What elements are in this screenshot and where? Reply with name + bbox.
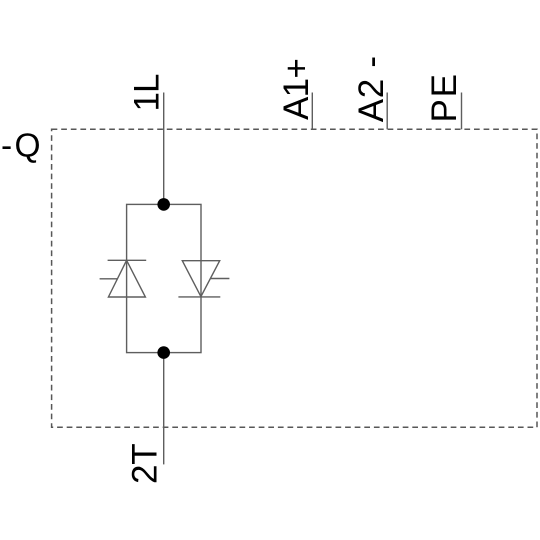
svg-text:A1+: A1+ — [277, 58, 316, 120]
svg-text:-Q: -Q — [1, 128, 41, 165]
svg-text:A2 -: A2 - — [352, 56, 391, 122]
svg-text:PE: PE — [425, 74, 464, 123]
svg-text:2T: 2T — [125, 443, 164, 484]
svg-text:1L: 1L — [128, 74, 167, 112]
